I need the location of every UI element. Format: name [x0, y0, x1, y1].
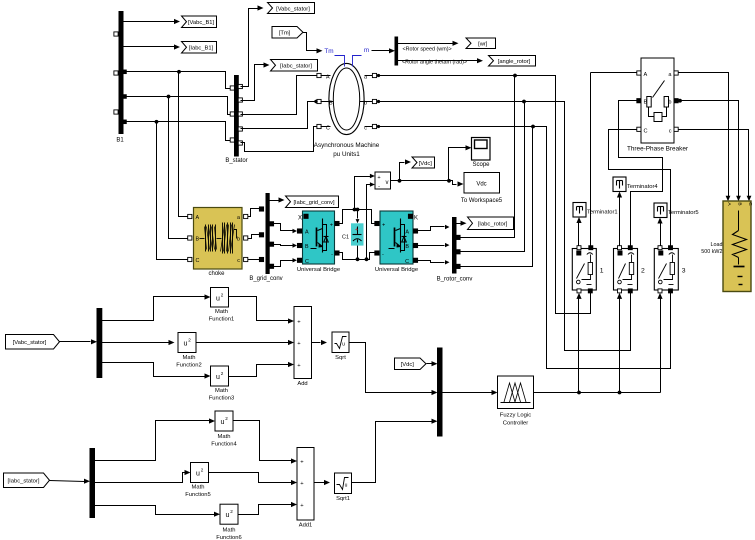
node bus B1 — [116, 12, 124, 144]
node bus B_rotor_conv — [437, 218, 473, 283]
svg-text:2: 2 — [188, 338, 191, 343]
wire mux to FLC — [443, 390, 498, 395]
svg-text:Function3: Function3 — [209, 396, 234, 402]
demux bar top — [97, 309, 102, 378]
node junction Vplus tap — [353, 208, 357, 212]
goto tag [wr] — [466, 38, 496, 49]
switch 1 block — [572, 249, 604, 291]
goto tag [Iabc_grid_conv] — [286, 196, 339, 208]
machine port C — [317, 124, 331, 131]
wire Vplus — [355, 174, 375, 210]
switch 2 block — [614, 249, 646, 291]
wire MF5 to Add1 — [209, 473, 298, 486]
svg-text:u: u — [184, 341, 188, 348]
wire choke a to B_grid_conv — [248, 209, 260, 217]
terminator1 block — [573, 203, 618, 218]
breaker port c — [669, 127, 678, 134]
svg-text:[Iabc_stator]: [Iabc_stator] — [280, 64, 312, 70]
svg-text:1: 1 — [600, 268, 604, 275]
svg-text:A: A — [644, 72, 648, 78]
goto tag [angle_rotor] — [489, 56, 536, 67]
wire demux2 to MF4 — [95, 418, 216, 460]
breaker port b — [668, 99, 678, 106]
svg-text:m: m — [364, 47, 369, 54]
svg-text:+: + — [382, 223, 385, 229]
node junction FLC s2 — [618, 391, 622, 395]
math function4 block — [211, 411, 237, 448]
node dot at breaker b — [678, 99, 682, 103]
add1 block — [297, 448, 314, 529]
svg-text:B: B — [329, 101, 333, 107]
svg-text:b: b — [364, 101, 367, 107]
port B_grid_conv out 2 — [269, 242, 273, 246]
wire bridge2 C to B_rotor_conv — [418, 260, 450, 264]
svg-text:[Vdc]: [Vdc] — [401, 362, 415, 368]
node junction a-rotor — [513, 74, 517, 78]
wire c to B_rotor_conv — [459, 127, 533, 267]
svg-text:[Iabc_stator]: [Iabc_stator] — [8, 479, 40, 485]
wire breaker C to switch3 — [609, 130, 671, 247]
wire switch1 to breaker A — [591, 73, 637, 247]
wire FLC to switch2 gate — [617, 293, 622, 393]
svg-text:B_stator: B_stator — [225, 158, 247, 164]
wire DC plus rail — [340, 210, 375, 224]
svg-text:-: - — [382, 252, 384, 258]
port B1 out 2 — [123, 95, 127, 99]
svg-text:[wr]: [wr] — [478, 42, 488, 48]
wire C1 top — [356, 210, 360, 224]
math function3 block — [209, 366, 234, 402]
wire B_stator to Vabc_stator — [241, 5, 264, 86]
svg-text:c: c — [237, 258, 240, 264]
svg-text:Function1: Function1 — [209, 317, 234, 323]
wire B_grid_conv to bridge1 A — [274, 224, 298, 234]
svg-text:3: 3 — [682, 268, 686, 275]
wire machine m to bus selector — [372, 48, 396, 53]
node junction C1 bottom tap — [356, 257, 360, 261]
svg-text:Function2: Function2 — [176, 363, 201, 369]
svg-text:Three-Phase Breaker: Three-Phase Breaker — [627, 146, 689, 153]
svg-text:To Workspace5: To Workspace5 — [461, 198, 503, 204]
port B_stator out A — [238, 112, 242, 116]
universal bridge 1 port minus — [331, 251, 339, 258]
choke port a — [237, 214, 248, 221]
wire to Vdc goto — [400, 159, 412, 180]
svg-text:Function5: Function5 — [185, 492, 210, 498]
svg-text:choke: choke — [208, 271, 225, 277]
goto tag [Vdc] — [412, 157, 435, 168]
to workspace block — [461, 173, 503, 205]
svg-text:+: + — [330, 223, 333, 229]
svg-text:B_grid_conv: B_grid_conv — [249, 276, 282, 282]
wire Add1 to Sqrt1 — [315, 480, 331, 485]
node junction phase-c drop — [155, 120, 159, 124]
from tag [Vdc] — [395, 358, 427, 370]
universal bridge 1 port A — [297, 229, 309, 236]
svg-text:+: + — [377, 175, 380, 181]
svg-text:a: a — [237, 215, 240, 221]
svg-text:Add: Add — [297, 381, 307, 387]
from tag [Iabc_stator] — [4, 473, 50, 488]
wire Iabc_stator to demux — [50, 479, 91, 484]
svg-text:Terminator5: Terminator5 — [668, 210, 699, 216]
wire FLC to switch1 gate — [576, 293, 581, 393]
svg-text:pu Units1: pu Units1 — [333, 151, 360, 158]
svg-text:Add1: Add1 — [299, 523, 313, 529]
svg-text:Load: Load — [711, 242, 723, 248]
node bus B_grid_conv — [249, 194, 282, 283]
port B_grid_conv in a — [259, 207, 263, 211]
svg-text:A: A — [326, 75, 330, 81]
from tag [Vabc_stator] — [6, 335, 60, 350]
svg-text:<Rotor angle thetam (rad)>: <Rotor angle thetam (rad)> — [402, 59, 467, 65]
switch 3 block — [654, 249, 686, 291]
node junction Vdc tag tap — [398, 179, 402, 183]
wire Sqrt to mux — [349, 343, 438, 396]
svg-text:Math: Math — [192, 485, 205, 491]
wire B_stator to machine B — [241, 102, 317, 129]
svg-text:u: u — [342, 342, 345, 348]
from tag [Tm] — [272, 27, 303, 39]
wire MF3 to Add — [229, 362, 295, 377]
wire phase-c drop to choke C — [157, 122, 188, 260]
wire Vabc_stator to demux — [60, 339, 98, 344]
sqrt block — [332, 332, 349, 361]
universal bridge 1 port C — [297, 258, 309, 265]
wire Vdc to mux — [427, 361, 438, 366]
breaker port C — [637, 127, 648, 134]
scope block — [472, 138, 491, 169]
svg-text:C: C — [196, 258, 200, 264]
wire B_stator to Iabc_stator — [241, 62, 270, 100]
choke port b — [237, 236, 248, 243]
wire DC minus rail — [340, 253, 375, 260]
universal bridge 1 gate port — [298, 214, 308, 221]
label rotor angle — [402, 59, 467, 65]
wire FLC output — [534, 392, 661, 394]
wire Sqrt1 to mux — [352, 419, 438, 483]
svg-text:[Iabc_B1]: [Iabc_B1] — [189, 46, 214, 52]
port B_stator out C — [238, 141, 242, 145]
goto tag [Iabc_rotor] — [468, 217, 514, 230]
wire machine c line — [379, 127, 671, 369]
port B1 out 1 — [123, 70, 127, 74]
svg-text:u: u — [345, 483, 348, 489]
port B_grid_conv in c — [259, 257, 263, 261]
svg-text:Asynchronous Machine: Asynchronous Machine — [314, 142, 380, 149]
port B_grid_conv out 1 — [269, 222, 273, 226]
svg-text:Universal Bridge: Universal Bridge — [297, 267, 341, 273]
svg-text:Controller: Controller — [503, 421, 529, 427]
wire MF6 to Add1 — [239, 502, 298, 515]
mux block — [438, 348, 443, 436]
universal bridge 1 port B — [297, 243, 309, 250]
wire breaker B to switch2 — [619, 101, 663, 247]
svg-text:u: u — [221, 419, 225, 426]
svg-text:B_rotor_conv: B_rotor_conv — [437, 277, 473, 283]
port B_rotor_conv out 1 — [456, 235, 460, 239]
node junction Vminus tap — [365, 257, 369, 261]
node junction FLC s1 — [577, 391, 581, 395]
wire B_grid_conv to Iabc_grid_conv — [270, 197, 285, 202]
wire machine a line — [379, 76, 591, 314]
terminator4 block — [613, 177, 658, 192]
choke port A — [188, 214, 200, 221]
machine port B — [314, 99, 333, 106]
wire choke c to B_grid_conv — [248, 259, 260, 261]
machine label Tm — [324, 48, 344, 67]
goto tag [Iabc_stator] — [271, 60, 318, 72]
wire switch2 to terminator4 — [617, 192, 622, 247]
svg-text:u: u — [216, 374, 220, 381]
demux bar bottom — [90, 449, 95, 518]
port B_stator out V — [238, 84, 242, 88]
goto tag [Iabc_B1] — [182, 42, 217, 54]
svg-text:-: - — [378, 184, 380, 190]
wire Vdc net — [391, 180, 449, 182]
svg-text:Math: Math — [223, 528, 236, 534]
wire demux2 to MF5 — [95, 470, 191, 483]
svg-text:Tm: Tm — [324, 48, 333, 55]
svg-text:Scope: Scope — [472, 162, 490, 168]
wire to workspace — [449, 181, 464, 187]
svg-text:C: C — [405, 259, 409, 265]
wire breaker a to load — [679, 73, 731, 202]
wire MF4 to Add1 — [233, 421, 298, 464]
machine U1 ellipse — [329, 63, 364, 134]
switch 1 ports — [577, 246, 593, 293]
sqrt1 block — [335, 473, 352, 502]
wire phase-b drop to choke B — [169, 97, 188, 239]
svg-text:u: u — [216, 296, 220, 303]
svg-text:a: a — [364, 75, 367, 81]
port B_rotor_conv out 2 — [456, 250, 460, 254]
machine port A — [317, 73, 331, 80]
svg-text:2: 2 — [641, 268, 645, 275]
svg-text:[Vabc_stator]: [Vabc_stator] — [13, 340, 47, 346]
wire switch1 to terminator1 — [576, 217, 581, 247]
svg-text:c: c — [669, 128, 672, 134]
svg-text:Math: Math — [215, 309, 228, 315]
svg-text:2: 2 — [230, 509, 233, 514]
math function5 block — [185, 463, 210, 499]
switch 2 ports — [618, 246, 633, 293]
svg-text:Math: Math — [218, 434, 231, 440]
wire to scope — [449, 145, 472, 180]
choke port c — [237, 257, 248, 264]
node junction phase-b drop — [167, 95, 171, 99]
wire MF1 to Add — [229, 297, 295, 324]
wire B1 to Iabc_B1 — [123, 44, 181, 49]
wire bridge2 B to B_rotor_conv — [418, 243, 450, 247]
node junction phase-a drop — [177, 70, 181, 74]
svg-text:[Tm]: [Tm] — [279, 31, 291, 37]
node junction scope tap — [447, 179, 451, 183]
port B1 out 3 — [123, 120, 127, 124]
capacitor C1 — [342, 224, 363, 245]
svg-text:B: B — [196, 237, 200, 243]
wire B_stator to machine A — [241, 76, 317, 115]
wire demux to MF3 — [102, 363, 211, 379]
breaker port B — [637, 99, 648, 106]
svg-text:Function6: Function6 — [216, 535, 241, 540]
label rotor speed — [403, 47, 452, 53]
svg-text:u: u — [196, 471, 200, 478]
three-phase breaker block — [627, 58, 689, 153]
svg-text:b: b — [237, 237, 240, 243]
svg-text:2: 2 — [201, 468, 204, 473]
switch 3 ports — [658, 246, 673, 293]
choke port B — [188, 236, 200, 243]
svg-text:C: C — [326, 126, 330, 132]
svg-text:2: 2 — [221, 293, 224, 298]
svg-text:[Iabc_grid_conv]: [Iabc_grid_conv] — [293, 200, 334, 206]
wire FLC to switch3 gate — [657, 293, 662, 393]
svg-text:Math: Math — [183, 355, 196, 361]
svg-text:K: K — [414, 215, 418, 221]
port B_grid_conv in b — [259, 233, 263, 237]
svg-text:C1: C1 — [342, 235, 349, 241]
svg-text:B: B — [644, 100, 648, 106]
wire phase-a drop to choke A — [179, 72, 188, 217]
wire b to B_rotor_conv — [459, 102, 525, 252]
universal bridge 2 port minus — [375, 251, 384, 258]
machine port b — [360, 99, 381, 106]
svg-text:C: C — [305, 259, 309, 265]
voltage measurement block — [375, 172, 391, 190]
fuzzy logic controller block — [498, 376, 534, 427]
wire B_stator to machine C — [241, 127, 317, 152]
wire B_rotor_conv to Iabc_rotor — [457, 221, 467, 226]
svg-text:[Vabc_B1]: [Vabc_B1] — [188, 20, 215, 26]
wire demux to MF1 — [102, 294, 211, 320]
port B_stator in 1 — [230, 86, 234, 90]
wire rotor speed wm — [398, 41, 459, 46]
svg-text:Universal Bridge: Universal Bridge — [375, 267, 419, 273]
math function2 block — [176, 333, 201, 369]
wire B1.a to B_stator.1 — [126, 72, 231, 89]
math function6 block — [216, 504, 241, 540]
choke block — [194, 208, 243, 278]
wire B_grid_conv to bridge1 C — [274, 258, 298, 266]
wire Vminus — [367, 182, 375, 259]
wire MF2 to Add — [197, 340, 295, 345]
wire choke b to B_grid_conv — [248, 235, 260, 239]
wire B1.b to B_stator.2 — [126, 97, 231, 115]
port B_stator in 2 — [230, 112, 234, 116]
svg-text:Math: Math — [215, 388, 228, 394]
machine port c — [364, 124, 380, 131]
node junction c-rotor — [531, 125, 535, 129]
svg-text:-: - — [331, 252, 333, 258]
load block — [701, 201, 753, 292]
wire switch3 to terminator5 — [657, 218, 662, 247]
svg-text:Vdc: Vdc — [476, 182, 486, 188]
svg-text:Function4: Function4 — [211, 442, 237, 448]
svg-text:C: C — [747, 202, 753, 206]
port B_stator in 3 — [230, 138, 234, 142]
port B1 input 3 — [114, 110, 118, 114]
port B_rotor_conv out 3 — [456, 264, 460, 268]
svg-text:c: c — [364, 126, 367, 132]
wire demux2 to MF6 — [95, 506, 221, 517]
port B_grid_conv out 3 — [269, 264, 273, 268]
svg-text:B: B — [305, 244, 309, 250]
universal bridge 1 block — [297, 211, 341, 273]
svg-text:A: A — [305, 230, 309, 236]
node bus B_stator — [225, 76, 247, 164]
node junction C1 top tap — [356, 208, 360, 212]
universal bridge 1 port plus — [330, 221, 339, 228]
port B1 input 1 — [114, 32, 118, 36]
svg-text:2: 2 — [221, 371, 224, 376]
svg-text:B: B — [737, 202, 743, 205]
bus selector — [395, 37, 398, 65]
svg-text:Terminator4: Terminator4 — [627, 184, 658, 190]
svg-text:A: A — [196, 215, 200, 221]
universal bridge 2 port B — [405, 243, 417, 250]
wire B1.c to B_stator.3 — [126, 122, 231, 141]
svg-text:b: b — [668, 100, 671, 106]
wire B_grid_conv to bridge1 B — [274, 243, 298, 247]
svg-text:[Vabc_stator]: [Vabc_stator] — [276, 6, 310, 12]
node junction b-rotor — [522, 100, 526, 104]
universal bridge 2 port C — [405, 258, 418, 265]
svg-text:2: 2 — [225, 416, 228, 421]
wire breaker b to load — [679, 101, 741, 202]
svg-text:B1: B1 — [116, 138, 124, 144]
wire C1 bottom — [357, 246, 359, 260]
svg-text:<Rotor speed (wm)>: <Rotor speed (wm)> — [403, 47, 452, 53]
machine name label — [314, 142, 380, 158]
wire breaker c to load — [679, 130, 752, 202]
svg-text:v: v — [386, 180, 389, 186]
port B1 input 2 — [114, 71, 118, 75]
math function1 block — [209, 288, 234, 323]
port B_stator out B — [238, 127, 242, 131]
svg-text:X: X — [298, 215, 302, 221]
wire demux to MF2 — [102, 340, 175, 345]
svg-text:500 kW2: 500 kW2 — [701, 249, 722, 255]
breaker port A — [637, 71, 648, 78]
universal bridge 2 port A — [405, 229, 417, 236]
wire Tm to machine — [303, 33, 323, 54]
wire B1 to Vabc_B1 — [123, 19, 181, 24]
wire a to B_rotor_conv — [459, 76, 515, 238]
wire machine b line — [379, 102, 631, 351]
add block — [294, 307, 312, 388]
wire bridge2 A to B_rotor_conv — [418, 225, 450, 231]
machine label m — [353, 47, 370, 67]
svg-text:Sqrt1: Sqrt1 — [336, 496, 350, 502]
svg-text:[Vdc]: [Vdc] — [419, 161, 433, 167]
universal bridge 2 block — [375, 211, 419, 273]
port B_stator out I — [238, 98, 242, 102]
svg-text:Fuzzy Logic: Fuzzy Logic — [500, 413, 531, 419]
goto tag [Vabc_B1] — [182, 16, 217, 28]
svg-text:A: A — [405, 230, 409, 236]
svg-text:B: B — [405, 244, 409, 250]
breaker port a — [668, 71, 678, 78]
svg-text:+: + — [355, 227, 358, 233]
universal bridge 2 port plus — [375, 221, 385, 228]
universal bridge 2 gate port — [408, 214, 418, 221]
wire rotor angle — [398, 58, 484, 63]
choke port C — [188, 257, 200, 264]
wire Add to Sqrt — [312, 340, 328, 345]
machine port a — [364, 73, 380, 80]
svg-text:u: u — [226, 512, 230, 519]
